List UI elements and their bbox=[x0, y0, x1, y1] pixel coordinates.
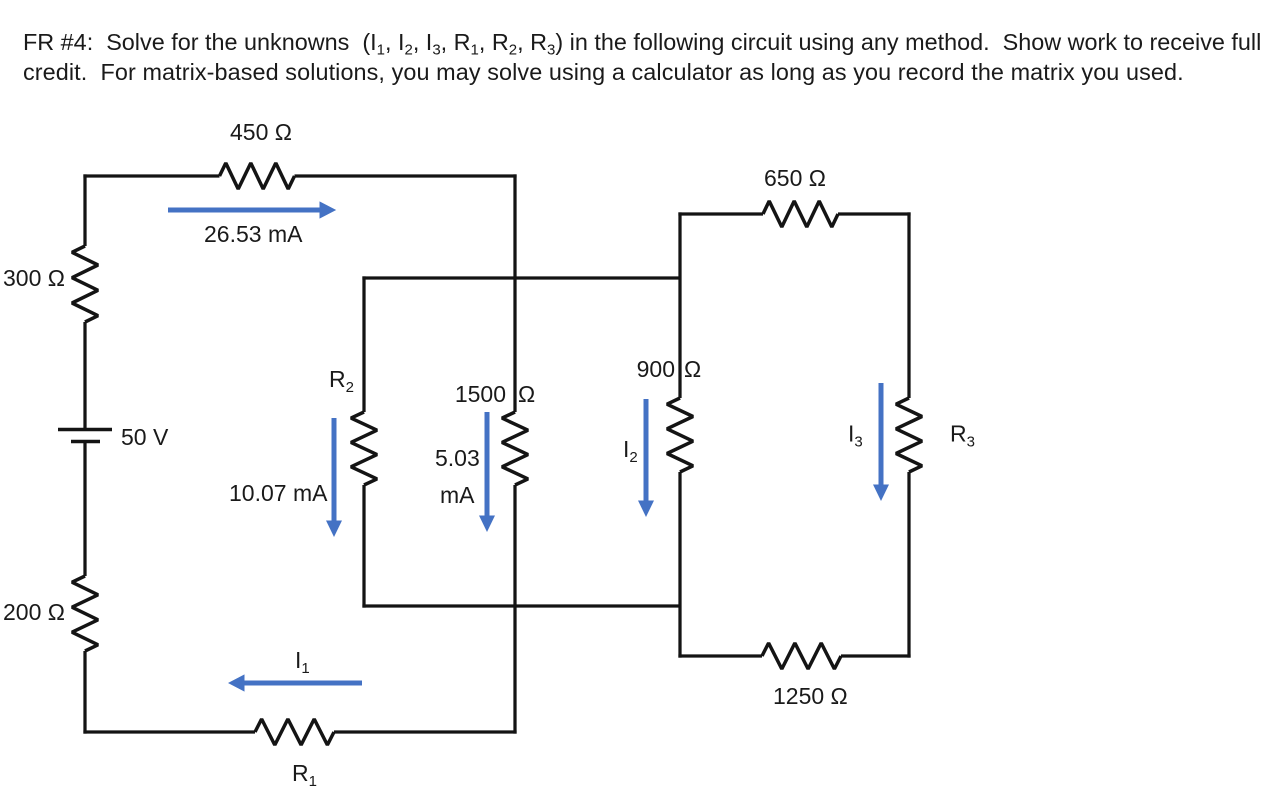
svg-text:200 Ω: 200 Ω bbox=[3, 599, 65, 625]
svg-text:I3: I3 bbox=[848, 421, 863, 451]
svg-text:10.07 mA: 10.07 mA bbox=[229, 480, 328, 506]
svg-text:1500: 1500 bbox=[455, 381, 506, 407]
svg-text:Ω: Ω bbox=[518, 381, 535, 407]
svg-text:I1: I1 bbox=[295, 647, 310, 677]
svg-text:mA: mA bbox=[440, 482, 475, 508]
svg-text:5.03: 5.03 bbox=[435, 445, 480, 471]
svg-text:300 Ω: 300 Ω bbox=[3, 265, 65, 291]
svg-text:I2: I2 bbox=[623, 436, 638, 466]
svg-text:R1: R1 bbox=[292, 760, 317, 790]
svg-text:50 V: 50 V bbox=[121, 424, 169, 450]
svg-text:650 Ω: 650 Ω bbox=[764, 165, 826, 191]
svg-text:R2: R2 bbox=[329, 366, 354, 396]
svg-text:1250 Ω: 1250 Ω bbox=[773, 683, 848, 709]
svg-text:900: 900 bbox=[637, 356, 675, 382]
svg-text:R3: R3 bbox=[950, 421, 975, 451]
svg-text:450 Ω: 450 Ω bbox=[230, 119, 292, 145]
svg-text:26.53 mA: 26.53 mA bbox=[204, 221, 303, 247]
svg-text:Ω: Ω bbox=[684, 356, 701, 382]
